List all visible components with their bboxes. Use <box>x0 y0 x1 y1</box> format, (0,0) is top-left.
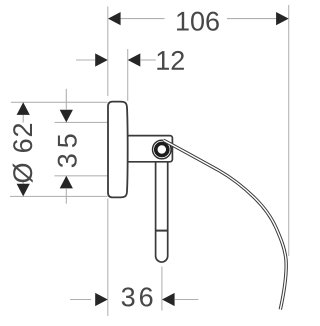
pivot spring outer coil <box>153 140 172 159</box>
dimension 35 line <box>65 89 67 204</box>
dimension 35 top arrow <box>60 110 73 123</box>
svg-text:35: 35 <box>52 128 82 168</box>
dimension 12 right arrow <box>128 53 141 66</box>
dimension D62 top arrow <box>17 102 30 115</box>
holder bar <box>156 160 168 262</box>
extension line: bar centerline <box>161 267 163 311</box>
svg-text:106: 106 <box>175 6 220 36</box>
dimension 35 bottom arrow <box>60 176 73 189</box>
dimension 36 left arrow <box>95 293 108 306</box>
mounting arm <box>126 136 172 162</box>
dimension 106 line <box>120 18 277 20</box>
wire outer <box>164 140 287 309</box>
extension line: wall plane top <box>107 7 109 97</box>
extension line: plate bottom <box>10 195 108 197</box>
dimension 106 right arrow <box>276 12 289 25</box>
dimension 106 left arrow <box>108 12 121 25</box>
wire core <box>164 140 287 309</box>
extension line: wall plane bottom <box>107 199 109 317</box>
svg-text:12: 12 <box>155 46 185 76</box>
extension line: 12mm offset <box>127 49 129 101</box>
dimension 36 right arrow <box>162 293 175 306</box>
dimension 36 line <box>70 299 198 301</box>
svg-text:36: 36 <box>121 282 157 312</box>
extension line: 35 top <box>55 121 109 123</box>
dimension 12 left arrow <box>95 53 108 66</box>
pivot ring <box>156 143 168 155</box>
dimension D62 bottom arrow <box>17 184 30 197</box>
extension line: 35 bottom <box>55 175 109 177</box>
extension line: plate top <box>11 101 108 103</box>
dimension 12 line <box>76 59 156 61</box>
svg-text:Ø 62: Ø 62 <box>8 122 38 184</box>
dimension D62 line <box>22 114 24 185</box>
wall plate <box>108 102 128 198</box>
extension line: 106mm right <box>288 5 290 256</box>
